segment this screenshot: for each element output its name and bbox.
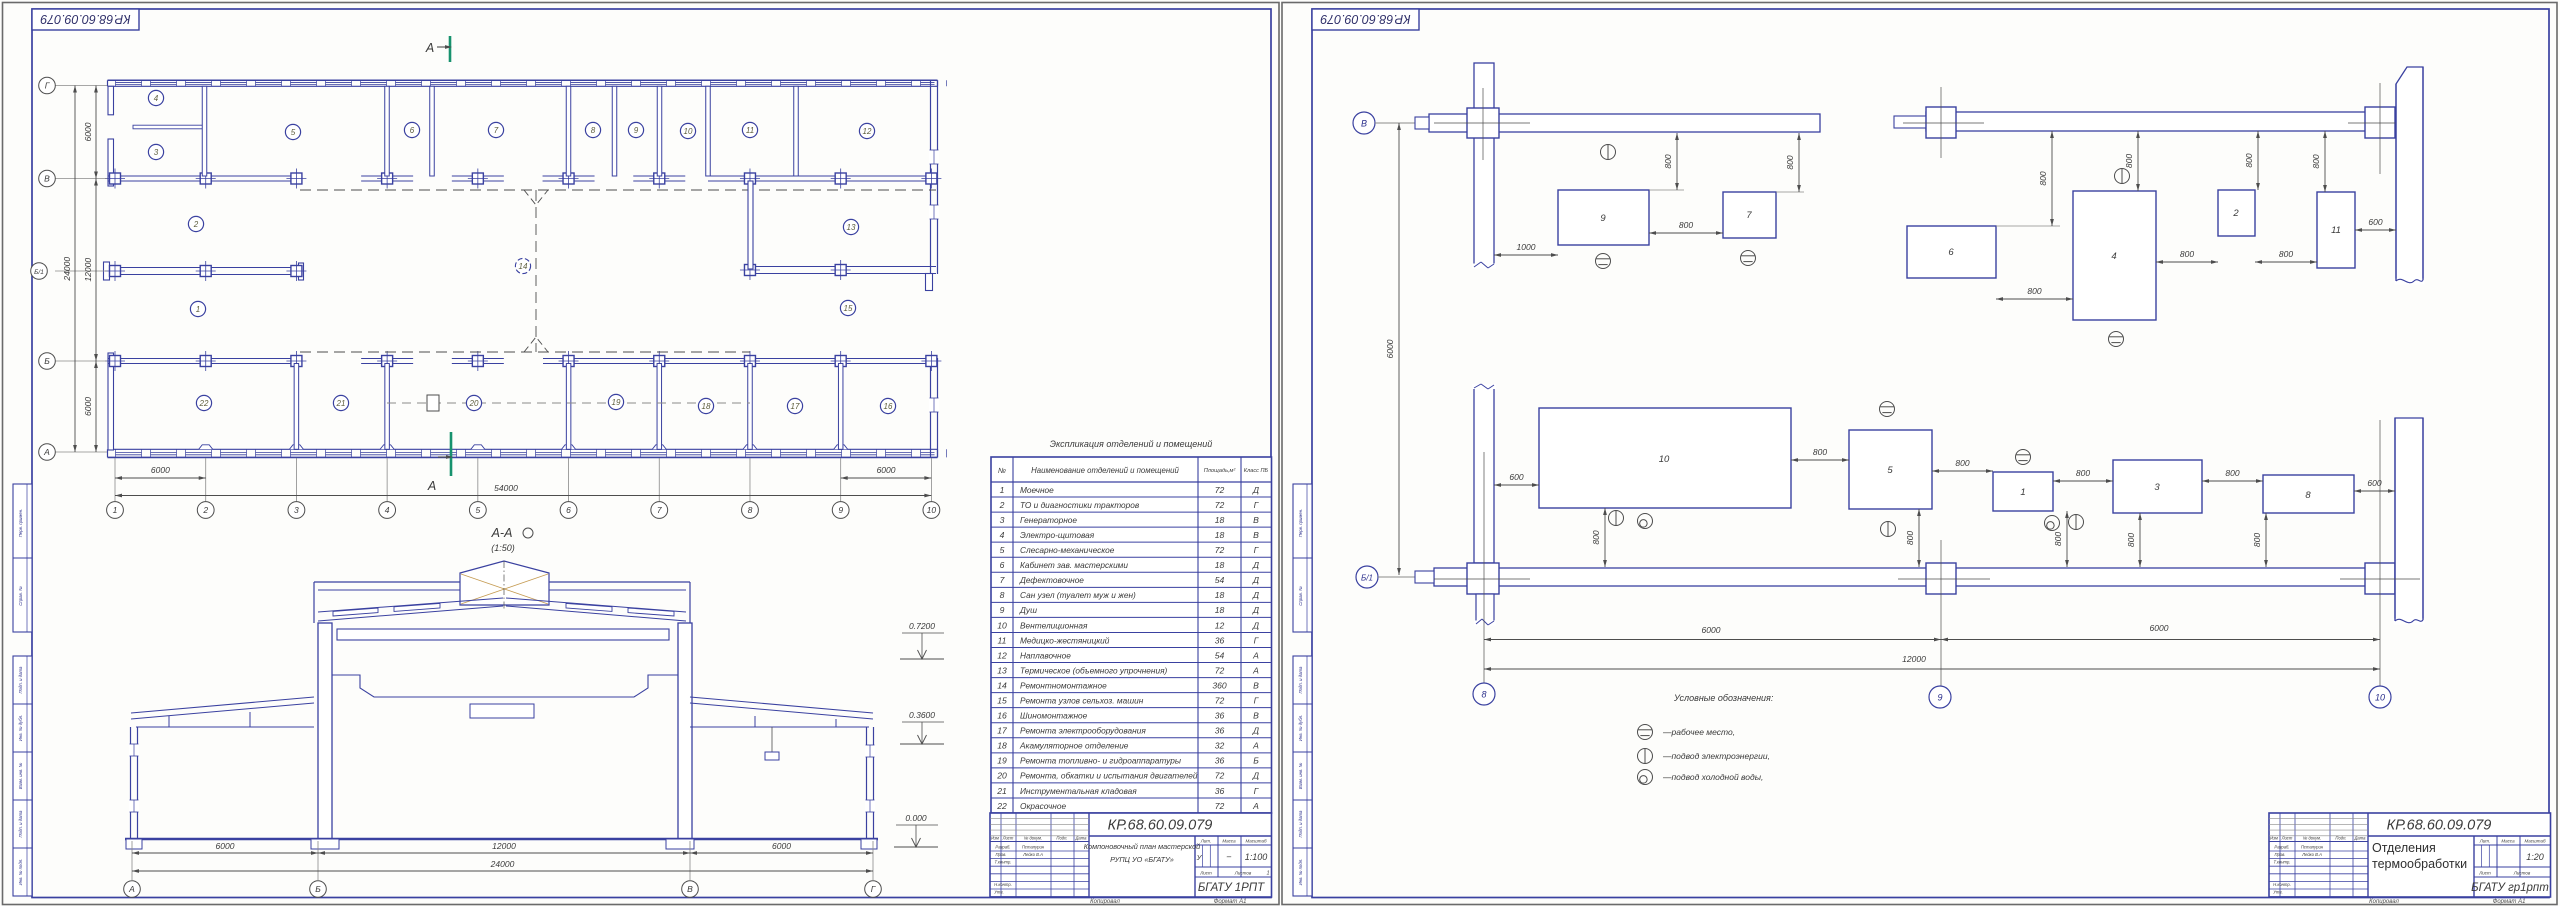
svg-text:Дефектовочное: Дефектовочное bbox=[1019, 575, 1084, 585]
svg-text:6: 6 bbox=[566, 505, 571, 515]
top band partition wall x=659.5 bbox=[657, 86, 662, 176]
svg-text:Наплавочное: Наплавочное bbox=[1020, 650, 1071, 660]
svg-text:Пстапурин: Пстапурин bbox=[2301, 845, 2324, 850]
column on row В bbox=[744, 173, 755, 184]
svg-text:2: 2 bbox=[2232, 208, 2239, 219]
column on row В bbox=[472, 173, 483, 184]
dimension 6000 columns 1-2 bbox=[115, 477, 206, 479]
svg-text:16: 16 bbox=[997, 711, 1007, 721]
dimension 54000 overall bbox=[115, 495, 931, 497]
svg-text:11: 11 bbox=[746, 126, 754, 135]
left wing roof slope bbox=[131, 697, 314, 713]
section grid bubble В bbox=[682, 881, 699, 898]
svg-text:Моечное: Моечное bbox=[1020, 485, 1054, 495]
grid extension line column 2 bbox=[205, 458, 207, 502]
svg-text:9: 9 bbox=[1937, 693, 1942, 703]
column on row Б bbox=[926, 356, 937, 367]
foundation pad right wall bbox=[861, 839, 877, 849]
symbol electric top-right bbox=[2115, 169, 2130, 184]
grid line to wall row В bbox=[1375, 122, 1432, 124]
equipment 10 bbox=[1539, 408, 1791, 508]
section mark A bottom bbox=[450, 432, 453, 476]
grid bubble column 8 bbox=[742, 502, 759, 519]
svg-text:Д: Д bbox=[1252, 590, 1259, 600]
right wing purlin 2 bbox=[835, 719, 837, 727]
side field boxes group 1 bbox=[13, 484, 32, 632]
svg-text:0.7200: 0.7200 bbox=[909, 621, 935, 631]
roof slope left lower bbox=[318, 606, 503, 621]
top-right wall bbox=[1926, 112, 2395, 131]
svg-text:2: 2 bbox=[202, 505, 208, 515]
svg-text:3: 3 bbox=[2154, 482, 2160, 493]
svg-text:Масштаб: Масштаб bbox=[1245, 839, 1266, 844]
svg-text:21: 21 bbox=[336, 399, 346, 408]
svg-text:72: 72 bbox=[1215, 801, 1225, 811]
right wing roof slope bbox=[690, 697, 873, 713]
svg-text:800: 800 bbox=[2180, 249, 2194, 259]
svg-text:Д: Д bbox=[1252, 726, 1259, 736]
grid extension line column 3 bbox=[295, 458, 297, 502]
svg-text:20: 20 bbox=[469, 399, 479, 408]
right sheet drawing frame bbox=[1312, 9, 2549, 898]
svg-text:Формат А1: Формат А1 bbox=[2493, 899, 2526, 905]
section dimension 6000 left bbox=[132, 852, 318, 854]
vertical dimension 800 under 1 bbox=[2066, 511, 2068, 567]
column 8 row В bbox=[1467, 108, 1499, 138]
svg-text:Н.контр.: Н.контр. bbox=[994, 882, 1012, 887]
row Б/1 left wall end cap west bbox=[104, 262, 110, 280]
grid bubble column 5 bbox=[469, 502, 486, 519]
svg-text:Копировал: Копировал bbox=[1090, 899, 1120, 905]
crane hook rectangle bbox=[470, 704, 534, 718]
bottom dimension 6000 right bbox=[1941, 639, 2380, 641]
left wing wall bbox=[130, 727, 132, 839]
room number circle 20 bbox=[466, 395, 481, 410]
svg-text:800: 800 bbox=[2311, 154, 2321, 168]
dimension 600 between 8 and wall bbox=[2354, 490, 2395, 492]
title block left grid bbox=[1000, 813, 1002, 897]
svg-text:18: 18 bbox=[1215, 590, 1225, 600]
grid bubble Г bbox=[39, 77, 56, 94]
svg-text:А: А bbox=[1252, 741, 1259, 751]
grid bubble В bbox=[39, 170, 56, 187]
bottom dimension 12000 bbox=[1484, 668, 2380, 670]
svg-text:6: 6 bbox=[410, 126, 415, 135]
grid bubble column 3 bbox=[288, 502, 305, 519]
svg-text:Лит.: Лит. bbox=[1200, 839, 1212, 844]
svg-text:1: 1 bbox=[1266, 871, 1269, 877]
title block right grid bbox=[1194, 836, 1196, 897]
column on row В bbox=[835, 173, 846, 184]
room number circle 2 bbox=[188, 216, 203, 231]
svg-text:Шиномонтажное: Шиномонтажное bbox=[1020, 711, 1088, 721]
row В wall stub at column bbox=[361, 175, 413, 177]
room number circle 14 bbox=[515, 258, 530, 273]
roof monitor bbox=[460, 561, 549, 605]
room number circle 12 bbox=[859, 123, 874, 138]
svg-text:15: 15 bbox=[844, 304, 853, 313]
svg-text:5: 5 bbox=[475, 505, 480, 515]
svg-text:13: 13 bbox=[997, 665, 1007, 675]
svg-text:36: 36 bbox=[1215, 786, 1225, 796]
svg-text:800: 800 bbox=[1591, 530, 1601, 544]
room number circle 5 bbox=[285, 124, 300, 139]
room number circle 13 bbox=[843, 219, 858, 234]
grid line row В bbox=[55, 178, 107, 180]
svg-text:Формат А1: Формат А1 bbox=[1214, 899, 1247, 905]
svg-text:3: 3 bbox=[154, 148, 159, 157]
row Б/1 left wall bbox=[108, 267, 300, 269]
svg-text:14: 14 bbox=[519, 262, 528, 271]
right end wall upper bbox=[2396, 67, 2423, 282]
explication table grid bbox=[991, 457, 1272, 813]
svg-text:20: 20 bbox=[996, 771, 1007, 781]
right end wall upper wavy break bbox=[2395, 279, 2425, 285]
title block left grid bbox=[2279, 813, 2281, 897]
column 8 row Б/1 bbox=[1467, 563, 1499, 594]
svg-text:Масштаб: Масштаб bbox=[2524, 839, 2545, 844]
equipment 3 bbox=[2113, 460, 2202, 513]
svg-text:Б: Б bbox=[1253, 756, 1259, 766]
top-right wall thin extension bbox=[1894, 116, 1926, 128]
symbol workplace above 1 bbox=[2016, 450, 2031, 465]
svg-text:Лит.: Лит. bbox=[2479, 839, 2491, 844]
monitor centerline bbox=[503, 561, 505, 611]
svg-text:Дата: Дата bbox=[1074, 836, 1087, 841]
equipment 6 bbox=[1907, 226, 1996, 278]
column on row В bbox=[291, 173, 302, 184]
top-left wall bbox=[1429, 114, 1820, 132]
svg-text:А: А bbox=[1252, 665, 1259, 675]
svg-text:800: 800 bbox=[2027, 286, 2041, 296]
column on row Б bbox=[291, 356, 302, 367]
column on row Б bbox=[382, 356, 393, 367]
room number circle 11 bbox=[742, 122, 757, 137]
row В wall stub at column bbox=[452, 175, 504, 177]
svg-text:16: 16 bbox=[884, 402, 893, 411]
column on row Б/1 left bbox=[200, 266, 211, 277]
svg-text:Лист: Лист bbox=[1002, 836, 1014, 841]
dimension 600 wall to 10 bbox=[1494, 484, 1539, 486]
top band partition wall x=204.5 bbox=[202, 86, 207, 176]
svg-text:Пров.: Пров. bbox=[995, 852, 1006, 857]
bottom dimension 6000 left bbox=[1484, 639, 1941, 641]
vertical dimension 24000 overall bbox=[74, 86, 76, 453]
svg-text:36: 36 bbox=[1215, 726, 1225, 736]
grid bubble column 1 bbox=[107, 502, 124, 519]
bottom band partition wall x=296.4 bbox=[294, 364, 299, 450]
svg-text:(1:50): (1:50) bbox=[491, 543, 515, 553]
left sheet outer border bbox=[3, 3, 1280, 905]
column on row Б bbox=[472, 356, 483, 367]
svg-text:Лист: Лист bbox=[1199, 871, 1212, 876]
svg-text:Взам. инв. №: Взам. инв. № bbox=[1298, 762, 1303, 789]
column on row Б bbox=[563, 356, 574, 367]
svg-text:Подп.: Подп. bbox=[2335, 836, 2346, 841]
svg-text:7: 7 bbox=[1746, 210, 1752, 221]
svg-text:Листов: Листов bbox=[1234, 871, 1252, 876]
svg-text:72: 72 bbox=[1215, 665, 1225, 675]
crane path triangle bottom bbox=[524, 337, 548, 352]
svg-text:—рабочее место,: —рабочее место, bbox=[1662, 727, 1735, 737]
svg-text:9: 9 bbox=[838, 505, 843, 515]
svg-text:6: 6 bbox=[1000, 560, 1005, 570]
svg-text:А: А bbox=[128, 884, 135, 894]
svg-text:Класс ПБ: Класс ПБ bbox=[1244, 468, 1269, 474]
svg-text:5: 5 bbox=[1887, 465, 1893, 476]
svg-text:Б/1: Б/1 bbox=[1361, 574, 1373, 583]
svg-text:Д: Д bbox=[1252, 605, 1259, 615]
column 10 row В bbox=[2365, 107, 2395, 138]
svg-text:№ докум.: № докум. bbox=[1024, 836, 1042, 841]
column 9 row Б/1 bbox=[1926, 563, 1956, 594]
foundation pad left column bbox=[311, 839, 339, 849]
svg-text:Условные обозначения:: Условные обозначения: bbox=[1673, 693, 1774, 703]
svg-text:В: В bbox=[1253, 515, 1259, 525]
svg-text:Масса: Масса bbox=[1222, 839, 1236, 844]
side field boxes group 1 bbox=[1293, 484, 1312, 632]
title block doc cell divider bbox=[2368, 835, 2551, 837]
symbol electric near 1 bbox=[2069, 515, 2084, 530]
parapet band right bbox=[549, 581, 690, 583]
svg-text:Пстапурин: Пстапурин bbox=[1022, 845, 1045, 850]
L-stub wall below Б/1 right bbox=[926, 274, 933, 291]
plan left exterior wall lower piece bbox=[108, 353, 114, 450]
grid bubble Б/1 bbox=[1356, 566, 1378, 588]
svg-text:800: 800 bbox=[1905, 531, 1915, 545]
svg-text:Наименование отделений и помещ: Наименование отделений и помещений bbox=[1031, 466, 1179, 475]
dimension 800 between 10 and 5 bbox=[1791, 459, 1849, 461]
grid line row А bbox=[55, 451, 107, 453]
grid extension line column 5 bbox=[477, 458, 479, 502]
svg-text:0.3600: 0.3600 bbox=[909, 710, 935, 720]
wall junction bump at column bbox=[380, 445, 394, 450]
svg-text:6: 6 bbox=[1948, 247, 1954, 258]
row Б wall stub at column bbox=[452, 358, 504, 360]
dimension 6000 columns 9-10 bbox=[841, 477, 932, 479]
vertical wall break mark top bbox=[1472, 384, 1496, 389]
svg-text:Т.контр.: Т.контр. bbox=[2274, 860, 2291, 865]
grid line row Б/1 bbox=[55, 270, 107, 272]
vertical dimension 800 to 9 bbox=[1649, 189, 1684, 191]
side field boxes group 2 bbox=[13, 656, 32, 896]
left wing ceiling bbox=[136, 726, 314, 728]
crane rail dashed line lower bbox=[300, 351, 750, 353]
right wing purlin 1 bbox=[754, 716, 756, 727]
svg-text:Б: Б bbox=[315, 884, 321, 894]
hanging lamp bbox=[771, 727, 773, 752]
column on row Б bbox=[110, 356, 121, 367]
svg-text:Лист: Лист bbox=[2478, 871, 2491, 876]
svg-text:7: 7 bbox=[657, 505, 662, 515]
right sheet outer border bbox=[1282, 3, 2557, 905]
wall junction bump at column bbox=[652, 445, 666, 450]
svg-text:12000: 12000 bbox=[83, 258, 93, 282]
foundation pad left wall bbox=[126, 839, 142, 849]
plan right exterior wall upper bbox=[930, 80, 932, 274]
svg-text:5: 5 bbox=[291, 128, 296, 137]
svg-text:600: 600 bbox=[2367, 478, 2381, 488]
wall junction bump at column bbox=[199, 445, 213, 450]
crane rail dashed line upper bbox=[300, 189, 936, 191]
room number circle 3 bbox=[148, 144, 163, 159]
svg-text:6000: 6000 bbox=[772, 841, 791, 851]
dimension 800 wall to 6 level bbox=[1996, 225, 2060, 227]
section grid bubble Г bbox=[865, 881, 882, 898]
svg-text:А: А bbox=[425, 41, 434, 55]
section dimension 24000 bbox=[132, 870, 873, 872]
bottom wall bbox=[1434, 568, 2395, 586]
grid bubble В bbox=[1353, 112, 1375, 134]
svg-text:3: 3 bbox=[294, 505, 299, 515]
dimension 1000 bbox=[1494, 254, 1558, 256]
svg-text:Инв. № дубл.: Инв. № дубл. bbox=[18, 715, 23, 741]
dimension 800 between 6 and 4 bbox=[1996, 298, 2073, 300]
symbol electric under 10 bbox=[1609, 511, 1624, 526]
dimension 800 wall to 11 bbox=[2324, 131, 2326, 192]
svg-text:Медицко-жестяницкий: Медицко-жестяницкий bbox=[1020, 635, 1110, 645]
grid bubble column 10 bbox=[923, 502, 940, 519]
svg-text:Д: Д bbox=[1252, 771, 1259, 781]
svg-text:3: 3 bbox=[1000, 515, 1005, 525]
plan right exterior wall lower bbox=[930, 358, 932, 457]
section floor line bbox=[125, 838, 878, 840]
svg-text:22: 22 bbox=[199, 399, 209, 408]
symbol workplace above 5 bbox=[1880, 402, 1895, 417]
svg-text:В: В bbox=[1361, 119, 1367, 129]
vertical wall above column 8 bottom bbox=[1474, 386, 1494, 563]
svg-text:КР.68.60.09.079: КР.68.60.09.079 bbox=[40, 12, 130, 26]
right end wall lower bbox=[2395, 418, 2423, 622]
svg-text:№: № bbox=[998, 466, 1006, 475]
section extension lines bbox=[131, 841, 133, 880]
svg-text:4: 4 bbox=[385, 505, 390, 515]
svg-text:15: 15 bbox=[997, 695, 1007, 705]
legend electric symbol bbox=[1638, 749, 1653, 764]
column on row В bbox=[926, 173, 937, 184]
dimension 800 between 1 and 3 bbox=[2053, 480, 2113, 482]
svg-text:Перв. примен.: Перв. примен. bbox=[1298, 509, 1303, 538]
plan left exterior wall upper piece bbox=[108, 86, 114, 115]
centerlines row Б/1 bbox=[1434, 578, 1530, 580]
roof slope left upper bbox=[318, 598, 503, 612]
svg-text:4: 4 bbox=[1000, 530, 1005, 540]
grid bubble column 7 bbox=[651, 502, 668, 519]
svg-text:9: 9 bbox=[1000, 605, 1005, 615]
legend water symbol bbox=[1638, 770, 1653, 785]
section grid bubble Б bbox=[310, 881, 327, 898]
svg-text:Ремонта электрооборудования: Ремонта электрооборудования bbox=[1020, 726, 1146, 736]
room number circle 4 bbox=[148, 90, 163, 105]
roof panel left 1 bbox=[333, 608, 378, 616]
svg-text:800: 800 bbox=[2244, 153, 2254, 167]
crane path triangle top bbox=[524, 190, 548, 205]
column 8 stub below bbox=[1476, 594, 1494, 624]
column on row Б bbox=[200, 356, 211, 367]
top band partition wall x=708 bbox=[706, 86, 711, 176]
column on row Б/1 right bbox=[835, 265, 846, 276]
svg-text:54: 54 bbox=[1215, 650, 1225, 660]
dimension 800 between 5 and 1 bbox=[1932, 470, 1993, 472]
row В interior wall right segment bbox=[708, 175, 937, 177]
svg-text:Т.контр.: Т.контр. bbox=[995, 860, 1012, 865]
section grid bubble А bbox=[124, 881, 141, 898]
column on row В bbox=[654, 173, 665, 184]
column on row Б/1 left bbox=[291, 266, 302, 277]
svg-text:В: В bbox=[44, 173, 50, 183]
svg-text:12000: 12000 bbox=[492, 841, 516, 851]
column on row В bbox=[200, 173, 211, 184]
bottom band partition wall x=750 bbox=[748, 364, 753, 450]
column on row Б bbox=[654, 356, 665, 367]
svg-text:Утв.: Утв. bbox=[2273, 890, 2283, 895]
grid extension line column 7 bbox=[658, 458, 660, 502]
svg-text:1: 1 bbox=[196, 305, 200, 314]
vertical dimension 6000 (Г-В) bbox=[95, 86, 97, 179]
svg-text:ТО и диагностики тракторов: ТО и диагностики тракторов bbox=[1020, 500, 1140, 510]
svg-text:800: 800 bbox=[1663, 154, 1673, 168]
svg-text:Лейко В.А: Лейко В.А bbox=[2301, 852, 2322, 857]
row В wall stub at column bbox=[543, 175, 595, 177]
svg-text:Листов: Листов bbox=[2513, 871, 2531, 876]
svg-text:А: А bbox=[427, 479, 436, 493]
grid bubble 10 bbox=[2369, 686, 2391, 708]
wall junction bump at column bbox=[834, 445, 848, 450]
roof slope right lower bbox=[506, 606, 686, 621]
svg-text:800: 800 bbox=[1813, 447, 1827, 457]
svg-text:Перв. примен.: Перв. примен. bbox=[18, 509, 23, 538]
svg-text:БГАТУ гр1рпт: БГАТУ гр1рпт bbox=[2471, 882, 2549, 894]
svg-text:54: 54 bbox=[1215, 575, 1225, 585]
equipment 5 bbox=[1849, 430, 1932, 509]
svg-text:18: 18 bbox=[1215, 605, 1225, 615]
svg-text:8: 8 bbox=[1481, 690, 1486, 700]
bottom band partition wall x=840.7 bbox=[838, 364, 843, 450]
column on row В bbox=[382, 173, 393, 184]
svg-text:9: 9 bbox=[634, 126, 639, 135]
svg-text:19: 19 bbox=[997, 756, 1007, 766]
svg-text:Отделения: Отделения bbox=[2372, 841, 2436, 855]
grid extension line column 8 bbox=[749, 458, 751, 502]
bottom band partition wall x=387.1 bbox=[385, 364, 390, 450]
wall junction bump at column bbox=[471, 445, 485, 450]
svg-text:12: 12 bbox=[997, 650, 1007, 660]
svg-text:9: 9 bbox=[1600, 213, 1606, 224]
grid bubble А bbox=[39, 444, 56, 461]
dimension 800 wall to 2 bbox=[2257, 131, 2259, 190]
column on row В bbox=[110, 173, 121, 184]
symbol workplace under 4 bbox=[2109, 332, 2124, 347]
vertical dimension 800 under 8 bbox=[2265, 513, 2267, 567]
svg-text:КР.68.60.09.079: КР.68.60.09.079 bbox=[2387, 818, 2492, 834]
svg-text:Термическое (объемного упрочне: Термическое (объемного упрочнения) bbox=[1020, 665, 1168, 675]
symbol water under 10 bbox=[1638, 514, 1653, 529]
wall junction bump at column bbox=[743, 445, 757, 450]
svg-text:Электро-щитовая: Электро-щитовая bbox=[1020, 530, 1095, 540]
svg-text:Лейко В.А: Лейко В.А bbox=[1022, 852, 1043, 857]
svg-text:Изм: Изм bbox=[991, 836, 999, 841]
svg-text:Дата: Дата bbox=[2353, 836, 2366, 841]
svg-text:800: 800 bbox=[1785, 155, 1795, 169]
row В wall stub at column bbox=[633, 175, 685, 177]
plan bottom exterior wall (row А) bbox=[108, 448, 938, 450]
column 10 row В centerlines bbox=[2348, 122, 2413, 124]
column on row Б/1 right bbox=[744, 265, 755, 276]
parapet band left bbox=[314, 581, 460, 583]
svg-text:24000: 24000 bbox=[490, 859, 515, 869]
svg-text:А-А: А-А bbox=[491, 526, 513, 540]
left wing purlin 1 bbox=[168, 716, 170, 727]
